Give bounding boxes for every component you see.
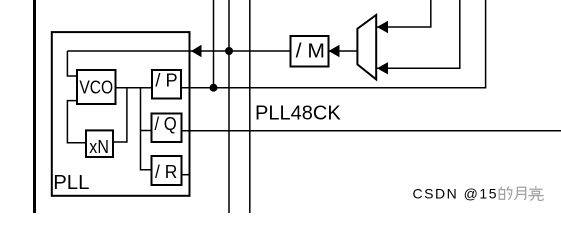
wire: xN output to VCO feedback input [67, 101, 86, 143]
wire: /R output stub [182, 174, 190, 176]
hanzi 的 [499, 187, 512, 200]
thick figure rule (left) [33, 0, 36, 213]
wire: bus stub to /Q input [141, 130, 152, 132]
hanzi 亮 [528, 186, 543, 201]
vertical wire VL3 [249, 0, 251, 213]
svg-text:/ M: / M [296, 41, 325, 63]
junction dot on net A at vertical bus x=229 [225, 47, 233, 55]
svg-text:/ P: / P [155, 71, 177, 91]
svg-text:/ Q: / Q [155, 114, 177, 134]
multiplier xN [86, 130, 113, 157]
clock source mux [357, 15, 376, 79]
svg-text:/ R: / R [155, 162, 177, 182]
svg-text:VCO: VCO [79, 78, 113, 98]
svg-text:PLL48CK: PLL48CK [255, 101, 341, 124]
arrowhead into mux top input [377, 21, 388, 33]
divider /Q [152, 114, 182, 143]
wire: mux bottom input (HSE) [377, 0, 460, 68]
wire: VCO output to /P input [116, 87, 153, 89]
svg-text:xN: xN [89, 137, 109, 157]
arrowhead into mux bottom input [377, 62, 388, 74]
wire: mux output to /M [329, 50, 358, 52]
wire: /P output (PLLCLK net B) to wrap-around corner [181, 0, 486, 88]
divider /M [291, 36, 329, 67]
junction dot on net B at vertical x=213.5 [210, 84, 218, 92]
vertical wire VL2 [228, 0, 230, 213]
divider /R [152, 156, 182, 185]
arrowhead into /M [329, 45, 340, 58]
svg-text:PLL: PLL [53, 171, 89, 194]
wire: divider bus down to /Q and /R [141, 88, 152, 170]
PLL block outline [52, 32, 190, 196]
VCO U2 [77, 70, 116, 104]
divider /P [152, 70, 181, 99]
svg-text:CSDN @15: CSDN @15 [413, 185, 497, 201]
hanzi 月 [514, 187, 526, 200]
wire: input corner down to VCO ref input [67, 51, 77, 76]
arrowhead into PLL [191, 45, 202, 58]
wire: mux top input (HSI) [377, 0, 431, 27]
watermark CSDN @15的月亮 [413, 185, 544, 201]
wire: PLL input line from /M (net A) [67, 50, 290, 52]
wire: /Q output PLL48CK net [182, 130, 561, 132]
vertical wire VL1 into net B [213, 0, 215, 88]
wire: VCO output down to xN input [113, 88, 127, 142]
